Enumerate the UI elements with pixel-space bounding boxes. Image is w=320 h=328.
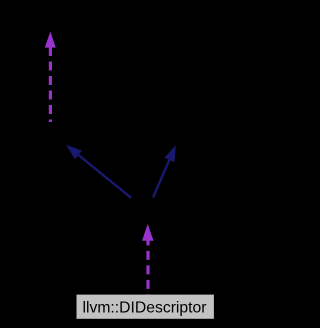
arrowhead purple upper-left	[45, 32, 56, 48]
wire: navy solid inheritance edge to upper-right node	[153, 160, 169, 198]
svg-text:llvm::DIDescriptor: llvm::DIDescriptor	[83, 300, 208, 317]
wire: navy solid inheritance edge to upper-left node	[78, 155, 131, 198]
wire: purple dashed edge upper-left (usage edge)	[49, 47, 52, 122]
wire: purple dashed edge from llvm::DIDescriptor node	[146, 236, 149, 295]
arrowhead purple lower	[142, 224, 154, 241]
arrowhead navy upper-right	[164, 145, 175, 162]
arrowhead navy upper-left	[66, 145, 82, 159]
node llvm::DIDescriptor box	[77, 295, 214, 319]
